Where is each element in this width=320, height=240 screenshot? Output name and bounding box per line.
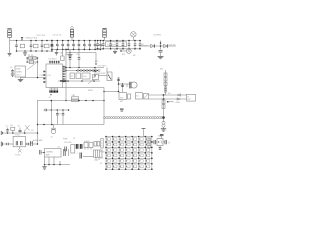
svg-text:C10: C10: [65, 54, 68, 56]
svg-text:U3: U3: [58, 147, 60, 149]
svg-text:COL: COL: [100, 158, 104, 160]
svg-text:LS1: LS1: [95, 160, 98, 162]
svg-text:U5 REG: U5 REG: [154, 35, 162, 37]
svg-text:LDO: LDO: [83, 76, 87, 78]
svg-text:LM386N: LM386N: [46, 151, 53, 153]
svg-text:VCC 3V3: VCC 3V3: [37, 35, 46, 37]
svg-text:c: c: [63, 46, 64, 48]
svg-text:c: c: [90, 46, 91, 48]
svg-text:M1: M1: [133, 55, 136, 57]
svg-text:LM1117 3V3: LM1117 3V3: [26, 37, 38, 39]
svg-text:OUT 5V: OUT 5V: [169, 44, 177, 46]
svg-text:J5: J5: [187, 96, 189, 98]
svg-text:Q2: Q2: [31, 130, 33, 132]
svg-text:R1 R2: R1 R2: [28, 55, 33, 57]
svg-text:c: c: [101, 46, 102, 48]
svg-text:Y1 OSC: Y1 OSC: [15, 155, 22, 157]
svg-text:C3: C3: [6, 126, 8, 128]
svg-text:C7 100nF: C7 100nF: [107, 44, 116, 46]
svg-text:PGM ICSP: PGM ICSP: [96, 73, 106, 75]
svg-text:AUDIO AMP: AUDIO AMP: [33, 139, 43, 142]
svg-text:b: b: [149, 158, 150, 160]
svg-text:U1 MCU: U1 MCU: [49, 58, 57, 60]
svg-text:a: a: [149, 152, 150, 154]
svg-text:Y2: Y2: [168, 142, 170, 144]
svg-text:c: c: [74, 46, 75, 48]
svg-text:R9: R9: [93, 77, 95, 79]
svg-text:Y1 32k: Y1 32k: [15, 135, 20, 137]
svg-text:S1: S1: [100, 163, 102, 165]
svg-text:= GND: = GND: [175, 102, 181, 104]
svg-text:BZ1: BZ1: [122, 54, 125, 56]
svg-text:J2: J2: [49, 97, 51, 99]
svg-text:R4: R4: [11, 125, 13, 127]
svg-text:BT1: BT1: [95, 61, 98, 63]
svg-text:C4 C5 C6: C4 C5 C6: [53, 35, 63, 37]
svg-text:OSC1: OSC1: [16, 74, 21, 76]
svg-text:FB1: FB1: [72, 95, 75, 97]
svg-text:SP1: SP1: [120, 97, 124, 99]
svg-text:Q1: Q1: [71, 76, 73, 78]
svg-text:C8: C8: [18, 126, 20, 128]
svg-text:C2: C2: [59, 114, 61, 116]
svg-text:C21: C21: [117, 78, 120, 80]
svg-text:ROW: ROW: [100, 152, 105, 154]
svg-text:PWR: PWR: [63, 139, 68, 141]
svg-text:R12: R12: [160, 69, 163, 71]
svg-text:PIC: PIC: [48, 75, 52, 77]
svg-text:C30 470u: C30 470u: [64, 142, 72, 144]
svg-text:K1: K1: [136, 96, 138, 98]
svg-text:D5: D5: [168, 93, 170, 95]
svg-text:J3: J3: [51, 137, 53, 139]
svg-text:XTAL: XTAL: [16, 68, 21, 71]
svg-text:C11: C11: [76, 54, 79, 56]
svg-text:J4 AUX: J4 AUX: [84, 140, 91, 143]
svg-text:3.7V LIPO: 3.7V LIPO: [98, 66, 107, 68]
svg-text:32MHz: 32MHz: [16, 72, 22, 74]
svg-text:C9: C9: [10, 67, 12, 69]
